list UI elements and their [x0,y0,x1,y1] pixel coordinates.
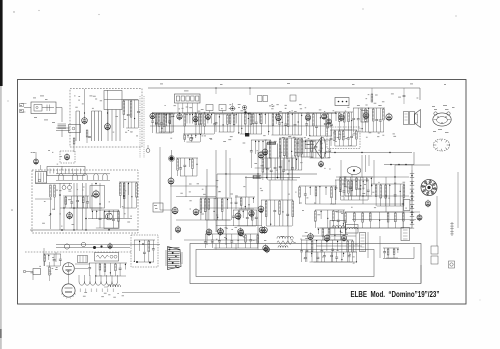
flyback dash parts [134,240,155,264]
sync cluster D [232,210,258,226]
sound out box [301,141,313,157]
wire stubs top [215,87,250,95]
variable capacitor [58,124,67,137]
discriminator transformer [361,111,368,123]
IF left extra [155,114,175,132]
tubes row bottom [218,226,265,236]
sound IF comps [305,113,333,136]
comps near right box [383,248,399,258]
PSU labels [42,187,132,230]
right ladder small [450,222,454,236]
CRT area vertical wires [341,160,403,228]
vert osc comps [260,200,294,226]
power dashed box [32,170,138,233]
AGC resistor [73,138,75,152]
flyback dashed box [131,235,158,267]
tube V24 [90,186,105,209]
tube V29 [417,214,422,221]
flyback winding tall box [360,233,366,252]
tuner dashed box [70,89,142,148]
transistor Q1 [106,213,113,220]
wire bus y152 [295,152,412,153]
tube V16 [175,226,180,234]
tube V1 RF amp [82,117,88,125]
frame-top specks [160,83,446,85]
IF transformer cells [206,105,226,114]
top labels [366,94,419,100]
top resistor [371,88,373,102]
tube V21 [262,226,268,234]
ratio det labels [333,133,356,147]
sync comps band [279,138,303,170]
tube V31 [206,228,212,236]
PSU vertical wires [74,183,86,230]
bottom labels [211,236,295,243]
small circles on bus [64,242,112,249]
tuner inner verticals [108,110,120,142]
tube V22 [265,246,270,253]
wire vert x216 [215,150,217,232]
speck marks top [13,8,456,16]
bottom comp row [204,234,259,248]
left scan edge (gray) [0,86,2,349]
bottom right wires [302,228,380,258]
video vertical wires [267,143,281,179]
PSU inner comps [65,196,89,208]
tube V2 mixer-osc [105,122,111,130]
PSU extra dots2 [59,194,125,209]
wire antenna to tuner [56,108,70,131]
top cap [403,88,406,104]
sync vertical wires [186,160,282,208]
junction dots on bus [179,112,309,113]
tube base diagram bottom [433,139,449,151]
tube V10 [305,114,310,122]
wire vert x288 [287,177,289,243]
sync cluster B [200,198,232,220]
PSU box right [104,212,119,229]
loudspeaker [415,110,421,128]
sync cluster A [176,158,198,176]
dark hatch rect low [253,176,261,179]
tube V20 [238,229,243,237]
audio comps [352,108,385,132]
mains transformer [36,172,47,184]
CRT mesh comps A [339,177,373,196]
mid-right comps A [299,186,337,204]
tube V8 small top [242,105,246,109]
tube V26 big [61,284,76,299]
PSU extra dots [50,183,97,231]
volume pot [49,262,51,281]
wirewound zigzag [277,241,294,245]
PSU bottom bus [30,229,138,230]
svg-text:ELBE Mod. “Domino”19”/23”: ELBE Mod. “Domino”19”/23” [351,289,440,299]
tube V23 rect [67,211,73,219]
coil squiggle [104,285,121,287]
wire vert x207 [206,169,208,245]
tube V34 below dot [168,177,174,185]
dark blob CAF [245,133,249,137]
can label [184,90,189,93]
mid labels [202,186,297,196]
blob ellipse [347,167,361,175]
IF labels band [165,104,302,144]
wire vert x258 [257,152,259,243]
tube V14 audio out [386,113,392,122]
tube below horn [319,160,324,167]
wire elbow left [160,147,172,210]
dark blob det [244,111,249,114]
IF stage3 comps [235,113,263,134]
PSU cluster B [119,182,137,208]
tube V3 oscillator [60,151,75,163]
sound takeoff comps [305,140,331,158]
bias box mid-left [153,203,163,212]
bottom right extra comps [317,228,347,240]
audio labels [357,101,396,137]
tube V5 IF1 [177,113,182,121]
wire mid bus y174 [217,173,317,174]
test point circle [146,145,150,152]
wire tube2 up [107,90,109,124]
CRT mesh dots [362,176,413,213]
border frame [18,80,467,305]
wire video bus [245,177,300,179]
sound IF extra comps [335,112,353,130]
band labels [254,148,330,171]
oscillator coil box [47,167,85,176]
bottom drop wires [216,244,258,250]
sync horizontal rails [176,197,262,241]
heater chain ticks [83,292,124,297]
small circle below [189,137,193,141]
output transformer [404,112,415,125]
balun in tuner [69,125,81,133]
bottom right labels [300,232,357,264]
grid resistor grid [78,256,88,263]
right cluster A comps [335,180,370,200]
right stacked boxes [431,246,438,264]
vert output box [330,221,346,235]
tube V28 [425,200,430,208]
wire right rail [457,172,459,228]
tube V5a [150,112,155,120]
speck marks margins [7,100,480,300]
audio preamp parts [43,254,62,266]
tuner components right [123,100,140,128]
detector box [335,98,349,106]
wire IF bus [152,112,336,114]
tube V13 sound amp [363,112,369,120]
video comps [265,113,303,135]
tuner labels [74,96,138,137]
tube V11 double [322,113,332,125]
sync cluster C [235,197,255,209]
caption text [351,289,440,299]
left scan edge (black) [0,0,3,86]
cluster above vert osc [262,158,298,180]
mid-right comps B [315,210,346,228]
right top labels [432,105,455,133]
junction ringed dot [169,150,175,162]
video bias comps [250,140,271,168]
PSU dropper resistors [50,185,56,229]
bottom right cluster tubes [308,233,347,243]
right cluster B comps [371,184,405,206]
antenna input unit [20,102,56,114]
video labels [269,104,349,145]
tube V19 [218,228,224,236]
bl labels [30,257,69,274]
tube V32 video [262,148,268,156]
tube V30 mid-left [172,206,178,214]
wire sync horiz [170,155,292,200]
CRT ladder [410,170,414,228]
tube V4 small [34,152,39,165]
wire B+ top bus [148,88,420,100]
bottom right comps [300,240,353,262]
small top boxes [258,95,297,102]
right cluster labels [342,176,407,208]
yoke inner box [196,250,374,277]
tuner top bus [104,99,138,101]
bottom right comps2 [304,252,357,263]
IF gap comps [215,114,235,132]
osc labels [31,150,62,164]
wire audio bottom [384,152,414,165]
tube V7 small top [230,103,234,111]
CRT mesh comps B [345,212,405,228]
IF input filter can [175,94,201,113]
bottom-left comps [88,263,127,277]
wire y258 right [383,247,414,259]
wire vert x217 [216,174,218,232]
mid-right specks [299,196,344,216]
below-IF comps A [183,134,201,142]
heater chain [79,275,118,292]
sync labels [180,180,237,231]
left edge tick bottom [0,329,2,338]
width coil [277,236,293,247]
ratio det comps [330,130,358,146]
antenna labels [20,96,55,123]
vreg rect [404,200,410,211]
tube V18 [249,210,254,218]
speaker horn [305,137,325,159]
vertical wires right of speaker [362,155,369,178]
tuner coil bank [76,111,102,141]
vert coil box [346,225,359,234]
small box w circle [449,261,455,268]
IF stage1 components [151,113,173,133]
PSU horizontal wires [35,184,132,219]
input jack [23,269,40,275]
wire mains up [41,165,63,170]
tube V12 sound [339,114,344,122]
wire to right [122,292,180,294]
IF interstage comps [183,113,216,134]
tuner bias parts [84,112,108,143]
wire crt area [395,165,437,283]
wire vert x171 [170,162,173,240]
ballast box [95,253,119,262]
ratio detector dashed box [327,127,360,149]
terminal marks left [20,104,24,113]
dark coil hatch [267,142,276,145]
tube base diagram top [433,112,451,126]
wire second rail [150,125,332,127]
CRT area wire mesh [330,177,420,228]
tube V-video2 [258,151,264,159]
tube V9 video [276,113,282,121]
tube diagram labels [434,109,449,130]
tube V5b [206,113,211,120]
wire vert x226 [225,150,227,245]
right small comp box [401,228,410,241]
PSU more verticals [60,183,128,230]
bl connective wires [33,248,90,284]
yoke outer box [190,244,421,284]
tuner inner screen box [104,91,122,110]
tube V27 [263,244,268,252]
fine tuning dashed shafts [140,96,144,158]
heater symbols row [56,174,110,181]
tube V17 [235,212,241,220]
dashed sep line [25,251,131,253]
tube V33 [258,205,264,213]
wire bus y244 [56,245,160,248]
electrolytic pair [62,183,72,190]
tube V25 audio out [63,263,75,275]
wire tube1 up [84,89,86,118]
tube V6 IF2 [193,115,198,123]
PSU cluster A [91,210,119,228]
CRT socket [421,180,437,196]
tube V15 sync sep [193,208,199,216]
flyback transformer toothed [166,247,182,270]
